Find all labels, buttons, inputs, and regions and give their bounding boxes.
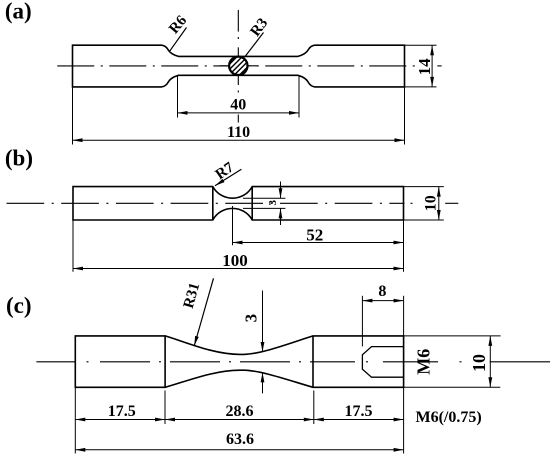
svg-text:110: 110 <box>227 124 250 141</box>
svg-text:3: 3 <box>267 199 279 205</box>
svg-text:R6: R6 <box>166 12 190 37</box>
svg-text:52: 52 <box>306 226 323 245</box>
svg-text:10: 10 <box>469 354 489 372</box>
svg-text:10: 10 <box>422 195 439 211</box>
svg-text:(b): (b) <box>5 146 33 171</box>
svg-text:M6(/0.75): M6(/0.75) <box>416 409 482 426</box>
svg-text:14: 14 <box>415 58 434 76</box>
svg-text:100: 100 <box>222 251 248 270</box>
svg-text:40: 40 <box>230 96 246 113</box>
svg-text:8: 8 <box>378 283 386 300</box>
svg-text:17.5: 17.5 <box>345 403 373 420</box>
svg-text:(c): (c) <box>6 293 32 318</box>
svg-text:M6: M6 <box>413 349 433 375</box>
svg-text:R3: R3 <box>248 15 272 39</box>
svg-text:R31: R31 <box>181 281 204 310</box>
svg-text:17.5: 17.5 <box>108 403 136 420</box>
svg-text:(a): (a) <box>5 0 32 23</box>
svg-text:28.6: 28.6 <box>226 403 254 420</box>
svg-text:63.6: 63.6 <box>226 431 254 448</box>
svg-text:R7: R7 <box>213 159 238 183</box>
svg-text:3: 3 <box>242 314 261 323</box>
